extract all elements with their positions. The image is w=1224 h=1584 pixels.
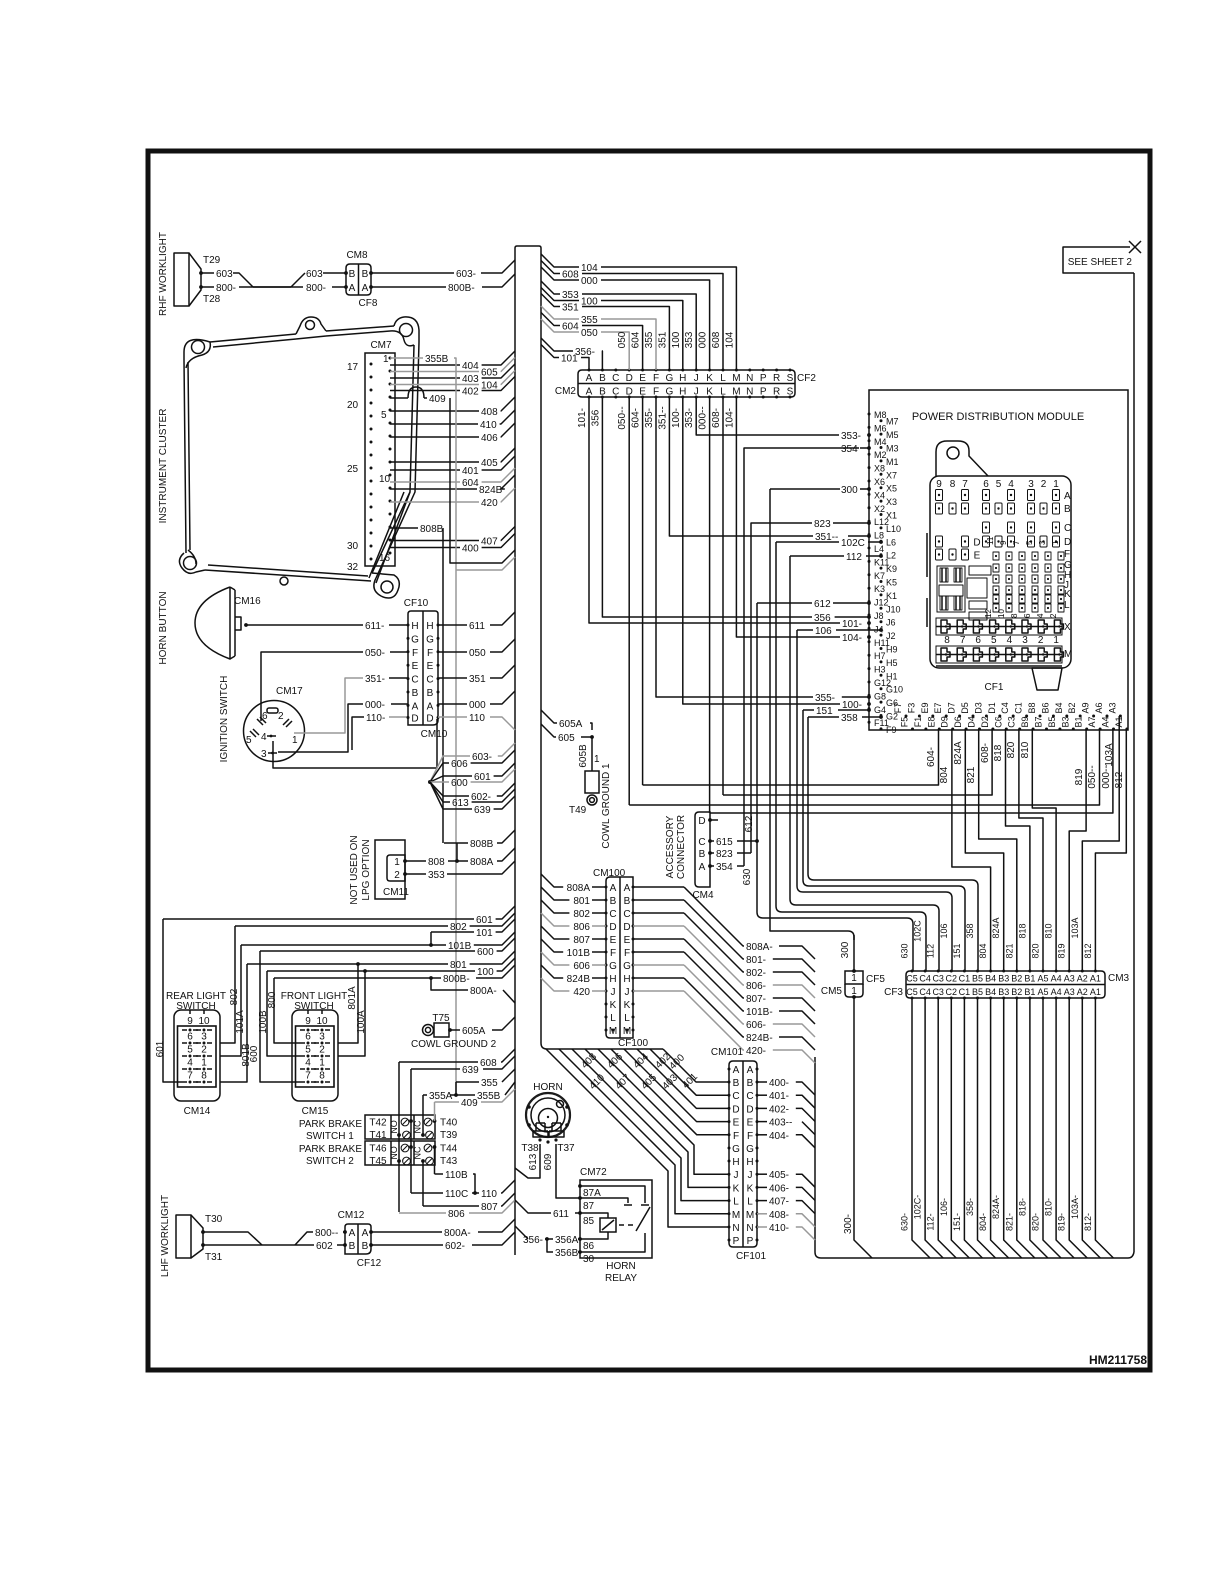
svg-text:T29: T29 (203, 255, 221, 266)
svg-text:A4: A4 (1101, 716, 1111, 727)
wire 608 park brake to trunk (399, 1061, 478, 1063)
svg-text:CF2: CF2 (797, 373, 816, 384)
svg-text:819-: 819- (1057, 1213, 1067, 1231)
wire 810- below CF3 (1056, 998, 1074, 1258)
svg-text:802: 802 (573, 909, 590, 920)
svg-text:E: E (974, 551, 981, 562)
svg-text:808A: 808A (567, 883, 591, 894)
svg-text:2: 2 (394, 870, 400, 881)
svg-text:611: 611 (469, 621, 485, 632)
svg-text:356A: 356A (555, 1235, 579, 1246)
svg-text:353-: 353- (684, 408, 695, 428)
wire 824A CF1 to CM3 B3 (965, 729, 1003, 971)
svg-text:C: C (746, 1091, 753, 1102)
wire 409 lower (435, 1101, 460, 1103)
svg-text:SWITCH 1: SWITCH 1 (306, 1131, 354, 1142)
svg-text:C3: C3 (932, 987, 944, 997)
wire 403 CF100 to CM101 (624, 1049, 729, 1122)
svg-text:H: H (679, 373, 686, 384)
wire 630- below CF3 (912, 998, 930, 1258)
svg-text:J: J (694, 373, 699, 384)
wire 608- CF1 D4 down to L column line (723, 729, 992, 795)
power distribution module outer box (869, 390, 1128, 730)
svg-text:G: G (666, 373, 674, 384)
svg-text:C2: C2 (946, 974, 958, 984)
svg-text:806: 806 (573, 922, 590, 933)
wire 353 from CM11 (405, 873, 426, 875)
svg-text:CM15: CM15 (302, 1106, 329, 1117)
svg-text:J8: J8 (874, 611, 884, 621)
svg-text:CONNECTOR: CONNECTOR (676, 815, 687, 879)
wire 106- below CF3 (951, 998, 969, 1258)
svg-text:T49: T49 (569, 805, 587, 816)
svg-text:1: 1 (319, 1058, 325, 1069)
svg-text:X6: X6 (874, 477, 885, 487)
svg-text:T30: T30 (205, 1214, 223, 1225)
svg-text:4: 4 (261, 732, 267, 743)
svg-text:T31: T31 (205, 1252, 223, 1263)
bottom collector bus wire (815, 1057, 1134, 1258)
svg-text:G4: G4 (874, 705, 886, 715)
svg-text:CF10: CF10 (404, 598, 429, 609)
svg-text:9: 9 (187, 1016, 193, 1027)
svg-text:X7: X7 (886, 470, 897, 480)
svg-text:H: H (411, 621, 418, 632)
cluster bottom-left mounting ear (179, 550, 205, 573)
wire 802 (235, 913, 515, 926)
svg-text:M: M (732, 1210, 740, 1221)
svg-text:L: L (747, 1197, 753, 1208)
wire 600 fan (430, 781, 449, 783)
svg-text:A: A (1064, 491, 1071, 502)
svg-text:606: 606 (451, 759, 468, 770)
wire 404 from CM7 (390, 364, 460, 366)
wire 806 lower (399, 1212, 446, 1214)
svg-text:5: 5 (187, 1045, 193, 1056)
svg-text:A2: A2 (1077, 974, 1088, 984)
svg-text:10: 10 (316, 1016, 328, 1027)
svg-text:420: 420 (481, 498, 498, 509)
svg-text:2: 2 (278, 711, 284, 722)
svg-text:3: 3 (1038, 540, 1047, 545)
svg-text:1: 1 (394, 857, 400, 868)
svg-text:823: 823 (716, 849, 733, 860)
svg-text:102C: 102C (913, 920, 923, 942)
svg-text:CM101: CM101 (711, 1047, 744, 1058)
svg-text:T46: T46 (369, 1144, 387, 1155)
cluster bottom-right mounting ear (372, 573, 399, 598)
svg-text:112: 112 (926, 944, 936, 958)
svg-text:6: 6 (305, 1032, 311, 1043)
svg-text:CM8: CM8 (346, 250, 368, 261)
wire 800B- CM8 to trunk (371, 286, 446, 288)
svg-text:C3: C3 (932, 974, 944, 984)
svg-text:608-: 608- (980, 743, 991, 763)
wire 110- to CF10 D (352, 717, 364, 750)
wire 102C- below CF3 (925, 998, 943, 1258)
svg-text:M: M (1064, 649, 1072, 660)
svg-text:B3: B3 (1060, 716, 1070, 727)
svg-text:S: S (787, 373, 794, 384)
svg-text:800: 800 (267, 991, 278, 1008)
svg-text:C2: C2 (946, 987, 958, 997)
CF1 M row (936, 646, 1062, 663)
svg-text:101-: 101- (577, 408, 588, 428)
wire 639 fan (430, 782, 472, 809)
svg-text:353: 353 (562, 290, 579, 301)
svg-text:104: 104 (581, 263, 598, 274)
svg-text:E: E (412, 661, 419, 672)
svg-text:603-: 603- (456, 269, 476, 280)
svg-text:G: G (623, 961, 631, 972)
svg-text:603: 603 (306, 269, 323, 280)
svg-text:B: B (599, 373, 606, 384)
svg-text:B: B (362, 269, 369, 280)
svg-text:1: 1 (1053, 635, 1059, 646)
svg-text:G10: G10 (886, 685, 903, 695)
svg-text:800A-: 800A- (470, 986, 497, 997)
svg-text:A: A (733, 1065, 740, 1076)
svg-text:824A: 824A (953, 741, 964, 765)
wire 800B- (274, 977, 441, 979)
svg-text:B: B (624, 896, 631, 907)
wire 810 CF1 to CM3 A4 (1032, 729, 1056, 971)
wire 400- CM101 to collector (757, 1081, 767, 1083)
svg-text:D7: D7 (947, 702, 957, 714)
wire 402- CM101 to collector (757, 1107, 767, 1109)
svg-text:X2: X2 (874, 504, 885, 514)
see-sheet-2 flag box (1063, 247, 1134, 273)
svg-text:605A: 605A (462, 1026, 486, 1037)
svg-text:B: B (412, 688, 419, 699)
wire 604- CF1 E8 down to E column line (643, 729, 939, 785)
svg-text:604-: 604- (631, 408, 642, 428)
wire 354 to CM4 A (710, 865, 714, 867)
svg-text:000: 000 (469, 700, 486, 711)
svg-text:801A: 801A (347, 986, 358, 1010)
relay dashed link (619, 1224, 633, 1226)
wire 100 trunk to CF2 H (541, 288, 579, 301)
svg-text:D5: D5 (960, 702, 970, 714)
svg-text:B9: B9 (1020, 716, 1030, 727)
wire 812- below CF3 (1095, 998, 1113, 1258)
wire 823 to CM4 B (710, 852, 714, 854)
svg-text:D4: D4 (967, 716, 977, 728)
svg-text:810: 810 (1044, 923, 1054, 938)
svg-text:B: B (1064, 504, 1071, 515)
svg-text:604: 604 (562, 322, 579, 333)
svg-text:K: K (733, 1183, 740, 1194)
svg-text:300: 300 (841, 485, 858, 496)
svg-text:807: 807 (573, 935, 590, 946)
svg-text:COWL GROUND 2: COWL GROUND 2 (411, 1039, 497, 1050)
svg-text:A5: A5 (1037, 974, 1048, 984)
svg-text:818: 818 (993, 744, 1004, 761)
svg-text:M4: M4 (874, 437, 887, 447)
svg-text:3: 3 (319, 1032, 325, 1043)
svg-text:30: 30 (347, 541, 359, 552)
svg-text:85: 85 (583, 1216, 595, 1227)
svg-text:H9: H9 (886, 645, 898, 655)
CF1 fuse row B (936, 503, 943, 514)
svg-text:B7: B7 (1034, 716, 1044, 727)
wire 824A- below CF3 (1004, 998, 1022, 1258)
svg-text:151: 151 (952, 943, 962, 958)
svg-text:630: 630 (742, 868, 753, 885)
svg-text:D: D (698, 816, 705, 827)
svg-text:2: 2 (201, 1045, 207, 1056)
wire 401 CF100 to CM101 (650, 1049, 729, 1095)
svg-text:B5: B5 (972, 987, 983, 997)
wire 807 lower (423, 1205, 479, 1207)
wire 110 ignition pin4 loop (273, 719, 437, 768)
svg-text:102C-: 102C- (913, 1195, 923, 1220)
wire 819 CF1 B1 to CM3 A3 (1069, 729, 1086, 971)
svg-text:G8: G8 (874, 691, 886, 701)
svg-text:B5: B5 (1047, 716, 1057, 727)
wire 639 park brake to trunk (411, 1068, 460, 1070)
svg-text:104-: 104- (724, 408, 735, 428)
svg-text:30: 30 (583, 1254, 595, 1265)
svg-text:C5: C5 (906, 974, 918, 984)
svg-text:800--: 800-- (315, 1228, 338, 1239)
relay contacts (580, 1186, 649, 1205)
relay coil (600, 1218, 616, 1232)
svg-text:630-: 630- (900, 1213, 910, 1231)
wire 101B (241, 932, 515, 945)
wire 400 from CM7 (390, 547, 460, 549)
wire 410 CF100 to CM101 (546, 1049, 729, 1227)
cluster bottom middle hole (280, 577, 288, 585)
svg-text:INSTRUMENT CLUSTER: INSTRUMENT CLUSTER (158, 409, 169, 524)
svg-text:HM211758: HM211758 (1089, 1353, 1147, 1367)
svg-text:H: H (623, 974, 630, 985)
svg-text:604: 604 (631, 331, 642, 348)
svg-text:25: 25 (347, 464, 359, 475)
svg-text:D: D (732, 1104, 739, 1115)
svg-text:820: 820 (1031, 943, 1041, 958)
svg-text:L: L (733, 1197, 739, 1208)
wire 353 trunk to CF2 J (541, 281, 560, 294)
svg-text:5: 5 (305, 1045, 311, 1056)
svg-text:10: 10 (997, 609, 1006, 618)
svg-text:T28: T28 (203, 294, 221, 305)
wire 102C vertical (776, 542, 926, 971)
svg-text:A: A (349, 283, 356, 294)
wire 604 trunk to CF2 E (541, 313, 560, 326)
wire 800-- LHF to CM12 (203, 1232, 262, 1245)
wire 818- below CF3 (1030, 998, 1048, 1258)
svg-text:D9: D9 (940, 716, 950, 728)
wire 806- CM100 to collector (633, 925, 684, 927)
svg-text:600: 600 (477, 947, 494, 958)
svg-text:300: 300 (840, 941, 851, 958)
svg-text:355: 355 (481, 1078, 498, 1089)
wire 821 CF1 to CM3 B2 (979, 729, 1017, 971)
wire 605 from CM7 (390, 371, 479, 373)
svg-text:801-: 801- (746, 955, 766, 966)
svg-text:B: B (362, 1241, 369, 1252)
wire 801 (247, 951, 515, 964)
svg-text:C1: C1 (959, 974, 971, 984)
svg-text:A: A (362, 283, 369, 294)
svg-text:F5: F5 (900, 717, 910, 728)
svg-text:050--: 050-- (1087, 765, 1098, 788)
svg-text:F: F (747, 1131, 753, 1142)
svg-text:804: 804 (978, 943, 988, 958)
svg-text:808A: 808A (470, 857, 494, 868)
wire 602- fan (430, 782, 469, 796)
wire 608 trunk to CF2 L (541, 261, 560, 274)
svg-text:L8: L8 (874, 531, 884, 541)
svg-text:408: 408 (481, 407, 498, 418)
svg-text:A3: A3 (1064, 974, 1075, 984)
wire 804- below CF3 (991, 998, 1009, 1258)
wire 606 fan (430, 763, 449, 782)
svg-text:D: D (609, 922, 616, 933)
svg-text:A: A (362, 1228, 369, 1239)
svg-text:1: 1 (383, 354, 389, 365)
svg-text:824A: 824A (991, 917, 1001, 938)
svg-text:G: G (411, 634, 419, 645)
svg-text:110-: 110- (366, 713, 385, 724)
svg-text:A2: A2 (1077, 987, 1088, 997)
wire 800A- CM12 to trunk (371, 1231, 442, 1233)
svg-text:F: F (427, 648, 433, 659)
wire 401 from CM7 (390, 469, 460, 471)
svg-text:T40: T40 (440, 1118, 458, 1129)
CF1 fuse row C (983, 522, 990, 533)
svg-text:609: 609 (543, 1153, 554, 1170)
svg-text:CM100: CM100 (593, 868, 626, 879)
wire 000-- CF1 A4 (710, 729, 1113, 813)
svg-text:L6: L6 (886, 537, 896, 547)
svg-text:402-: 402- (769, 1104, 789, 1115)
svg-text:D: D (411, 714, 418, 725)
svg-text:F9: F9 (886, 725, 897, 735)
svg-text:355: 355 (644, 331, 655, 348)
svg-text:A1: A1 (1090, 974, 1101, 984)
svg-text:808A-: 808A- (746, 942, 773, 953)
junction hub 600 fan (428, 780, 432, 784)
svg-text:405-: 405- (769, 1170, 789, 1181)
svg-text:1: 1 (1051, 540, 1060, 545)
wire 800A- branch (431, 978, 468, 990)
svg-text:C1: C1 (959, 987, 971, 997)
svg-text:B1: B1 (1024, 974, 1035, 984)
wire 151- below CF3 (964, 998, 982, 1258)
wire 601 (163, 906, 515, 919)
wire 420 from CM7 (390, 501, 479, 503)
svg-text:358: 358 (965, 923, 975, 938)
svg-text:T41: T41 (369, 1130, 387, 1141)
svg-text:104-: 104- (842, 633, 862, 644)
svg-text:H: H (609, 974, 616, 985)
wire 821- below CF3 (1017, 998, 1035, 1258)
svg-text:J: J (748, 1170, 753, 1181)
svg-text:D: D (1064, 537, 1071, 548)
svg-text:K3: K3 (874, 584, 885, 594)
svg-text:X1: X1 (886, 511, 897, 521)
svg-text:T44: T44 (440, 1144, 458, 1155)
wire 403-- CM101 to collector (757, 1121, 767, 1123)
wire 104 trunk to CF2 M (541, 254, 579, 267)
wire 808A trunk to CM100 (541, 874, 563, 887)
X mark sheet2 (1129, 241, 1141, 253)
svg-text:B2: B2 (1011, 987, 1022, 997)
wire 807 trunk to CM100 (541, 926, 569, 939)
svg-text:824A-: 824A- (991, 1195, 1001, 1219)
svg-text:LPG OPTION: LPG OPTION (361, 839, 372, 900)
svg-text:B: B (427, 688, 434, 699)
svg-text:802-: 802- (746, 968, 766, 979)
wire 820 CF1 to CM3 A5 (1019, 729, 1043, 971)
svg-text:M: M (746, 1210, 754, 1221)
svg-text:F: F (653, 373, 659, 384)
wire 404- CM101 to collector (757, 1134, 767, 1136)
svg-text:800B-: 800B- (448, 283, 475, 294)
wire T43 to 807 (422, 1161, 424, 1206)
front light switch box CM15 (292, 1010, 338, 1101)
wire 406 CF100 to CM101 (585, 1049, 729, 1187)
svg-text:B1: B1 (1024, 987, 1035, 997)
wire 408- CM101 to collector (757, 1213, 767, 1215)
svg-text:608-: 608- (711, 408, 722, 428)
svg-text:D: D (746, 1104, 753, 1115)
wire 420 trunk to CM100 (541, 978, 569, 991)
svg-text:P: P (747, 1236, 754, 1247)
svg-text:F3: F3 (906, 703, 916, 714)
svg-text:605B: 605B (578, 744, 589, 768)
svg-text:358-: 358- (965, 1198, 975, 1216)
svg-text:A1: A1 (1090, 987, 1101, 997)
wire 355A / 355B (423, 1094, 427, 1096)
svg-text:A: A (747, 1065, 754, 1076)
svg-text:8: 8 (950, 479, 956, 490)
svg-text:000--: 000-- (1101, 765, 1112, 788)
svg-text:X4: X4 (874, 490, 885, 500)
svg-text:B: B (349, 1241, 356, 1252)
svg-text:604: 604 (462, 478, 479, 489)
svg-text:606-: 606- (746, 1020, 766, 1031)
svg-text:103A-: 103A- (1070, 1195, 1080, 1219)
fuse panel CF1 (930, 476, 1071, 668)
wire 808A- CM100 to collector (633, 886, 684, 888)
park brake switch box T42/T41 (365, 1115, 435, 1139)
wire 410- CM101 to collector (757, 1226, 767, 1228)
svg-text:N: N (746, 1223, 753, 1234)
svg-text:355B: 355B (425, 354, 449, 365)
wire 801- CM100 to collector (633, 899, 684, 901)
wire 351 trunk to CF2 G (541, 294, 560, 307)
connector CM101/CF101 (729, 1061, 757, 1247)
connector CF5/CM5 (845, 971, 863, 984)
wire 606 trunk to CM100 (541, 952, 569, 965)
svg-text:POWER DISTRIBUTION MODULE: POWER DISTRIBUTION MODULE (912, 411, 1084, 423)
svg-text:K: K (624, 1000, 631, 1011)
svg-text:CM11: CM11 (383, 887, 409, 898)
wire 800 RHF to CM8 (201, 286, 214, 288)
svg-text:5: 5 (246, 735, 252, 746)
svg-text:354: 354 (716, 862, 733, 873)
svg-text:C4: C4 (1000, 702, 1010, 714)
svg-text:NO: NO (389, 1146, 399, 1160)
wire 604 from CM7 (390, 481, 460, 483)
svg-text:818: 818 (1017, 923, 1027, 938)
svg-text:821: 821 (966, 766, 977, 783)
wire 101 (431, 919, 515, 932)
svg-text:807-: 807- (746, 994, 766, 1005)
